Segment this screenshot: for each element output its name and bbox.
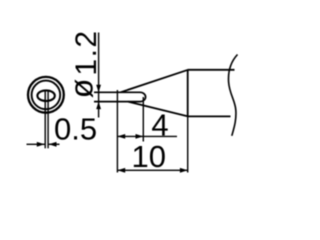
blade bottom edge / ext line <box>94 101 140 103</box>
dim phi1.2 lower arrow (points up) <box>96 102 101 110</box>
break line <box>228 55 237 136</box>
dim phi1.2 line <box>98 33 100 118</box>
dim 0.5 right tail <box>49 143 60 145</box>
shoulder extension line <box>187 116 189 172</box>
dim 0.5 right arrow <box>49 142 57 147</box>
dim 10 line <box>117 169 187 171</box>
front edge line left <box>44 90 46 148</box>
cylinder top edge <box>188 69 235 71</box>
dim 0.5 left tail <box>27 143 45 145</box>
dim 4 right arrow (points right) <box>136 134 144 139</box>
front edge line right <box>47 90 49 148</box>
dim phi1.2 upper arrow (points down) <box>96 85 101 93</box>
svg-text:ø: ø <box>64 79 100 99</box>
cone top line <box>121 70 189 93</box>
dim 10 left arrow (points left) <box>117 168 125 173</box>
dim 0.5 left arrow <box>37 142 45 147</box>
svg-text:10: 10 <box>132 139 166 174</box>
front view inner circle <box>32 81 61 110</box>
dim 4 line <box>117 135 177 137</box>
front view flat ellipse <box>37 90 54 101</box>
svg-text:1.2: 1.2 <box>70 29 103 75</box>
svg-text:0.5: 0.5 <box>54 112 97 147</box>
dim 10 right arrow (points right) <box>180 168 188 173</box>
svg-text:4: 4 <box>151 108 168 143</box>
dim 4 left arrow (points left) <box>117 134 125 139</box>
cylinder bottom edge <box>188 115 231 117</box>
blade end face / tip extension line <box>116 90 118 173</box>
blade ellipse cap <box>140 92 146 101</box>
cone bottom line <box>128 102 188 117</box>
blade top edge / ext line <box>94 91 140 93</box>
shoulder edge <box>187 70 189 117</box>
front view outer circle <box>28 77 64 113</box>
dim 4 right extension line <box>142 97 144 142</box>
